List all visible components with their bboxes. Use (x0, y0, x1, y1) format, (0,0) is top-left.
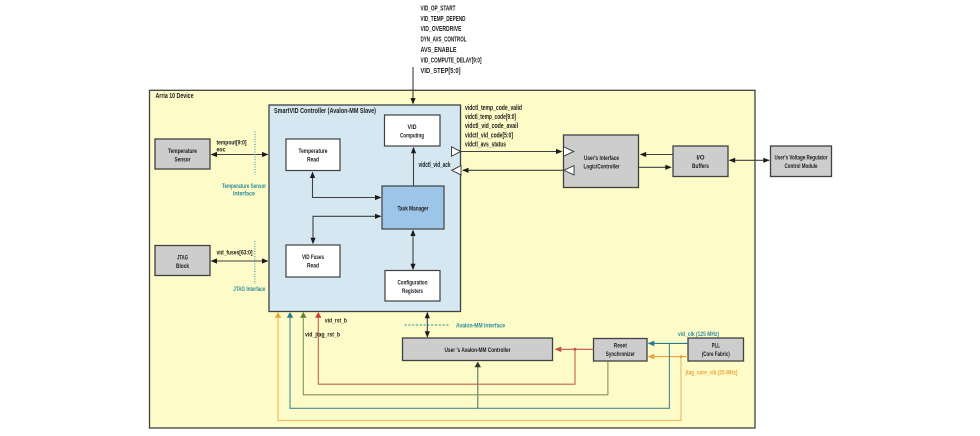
svg-text:Synchronizer: Synchronizer (606, 351, 635, 358)
wire: tempout[9:0]/eoc between Temperature Sensor and SmartVID (211, 152, 269, 157)
svg-text:Buffers: Buffers (692, 163, 709, 170)
buffer: user's interface input triangle (564, 147, 574, 156)
svg-text:vid_clk (125 MHz): vid_clk (125 MHz) (678, 331, 719, 338)
svg-text:Avalon-MM Interface: Avalon-MM Interface (456, 323, 505, 330)
svg-text:Temperature Sensor: Temperature Sensor (222, 183, 266, 190)
svg-text:VID_OP_START: VID_OP_START (421, 6, 456, 13)
svg-text:Read: Read (307, 262, 319, 269)
wire: Task Manager to Configuration Registers (bidirectional) (410, 230, 415, 271)
svg-text:Registers: Registers (402, 288, 423, 295)
block: JTAG Block (155, 246, 210, 276)
svg-text:jtag_core_clk (25 MHz): jtag_core_clk (25 MHz) (685, 370, 738, 377)
buffer: SmartVID input receiver triangle (452, 166, 461, 175)
svg-text:Temperature: Temperature (299, 148, 328, 155)
wire: vid_rst_b net (red) (315, 312, 593, 384)
wire: vidctl_vid_ack from user's interface to SmartVID (462, 168, 564, 173)
svg-text:DYN_AVS_CONTROL: DYN_AVS_CONTROL (421, 37, 467, 44)
block: User's Interface Logic/Controller (564, 135, 639, 188)
svg-text:JTAG Interface: JTAG Interface (233, 286, 265, 293)
svg-text:SmartVID Controller (Avalon-MM: SmartVID Controller (Avalon-MM Slave) (274, 108, 376, 115)
block: Reset Synchronizer (594, 339, 648, 362)
svg-text:vidctl_temp_code[9:0]: vidctl_temp_code[9:0] (465, 114, 516, 121)
block: User's Voltage Regulator Control Module (771, 146, 832, 177)
svg-text:Temperature: Temperature (168, 148, 197, 155)
svg-text:(Core Fabric): (Core Fabric) (702, 351, 730, 358)
block: Temperature Read (286, 139, 340, 171)
svg-text:Logic/Controller: Logic/Controller (584, 164, 620, 171)
svg-text:vid_fuses[63:0]: vid_fuses[63:0] (217, 249, 253, 256)
wire: vidctl outputs to user's interface (461, 149, 563, 154)
svg-text:User's Voltage Regulator: User's Voltage Regulator (775, 154, 828, 161)
wire: vid_clk net (blue) (287, 312, 688, 408)
wire: jtag_core_clk net (orange) (275, 312, 688, 421)
svg-text:VID Fuses: VID Fuses (302, 254, 324, 261)
block: Temperature Sensor (155, 139, 210, 169)
node: JTAG interface boundary (dotted) (254, 241, 256, 284)
wire: user's interface to I/O buffers (input) (640, 152, 673, 157)
svg-text:Configuration: Configuration (398, 279, 428, 286)
wire: Task Manager to VID Fuses Read (310, 214, 381, 245)
svg-text:Reset: Reset (614, 343, 628, 350)
svg-text:AVS_ENABLE: AVS_ENABLE (421, 47, 457, 54)
buffer: SmartVID output driver triangle (452, 147, 461, 156)
wire: user's interface to I/O buffers (output) (639, 165, 672, 170)
block: VID Fuses Read (286, 245, 340, 277)
svg-text:vidctl_avs_status: vidctl_avs_status (465, 142, 506, 149)
svg-text:VID_TEMP_DEPEND: VID_TEMP_DEPEND (421, 16, 466, 23)
svg-text:VID_OVERDRIVE: VID_OVERDRIVE (421, 26, 462, 33)
wire: I/O buffers to voltage regulator module (bidirectional) (729, 158, 770, 163)
block: SmartVID Controller (Avalon-MM Slave) (269, 105, 461, 312)
svg-text:PLL: PLL (712, 343, 720, 350)
svg-text:VID: VID (408, 124, 417, 131)
svg-text:Arria 10 Device: Arria 10 Device (156, 93, 194, 100)
svg-text:Block: Block (176, 263, 189, 270)
svg-text:User's Interface: User's Interface (584, 155, 619, 162)
svg-text:Control Module: Control Module (785, 163, 818, 170)
block: Arria 10 Device (150, 90, 756, 428)
svg-text:User ’s Avalon-MM Controller: User ’s Avalon-MM Controller (445, 347, 511, 354)
block: I/O Buffers (673, 146, 728, 177)
wire: Temperature Read to Task Manager (310, 172, 382, 201)
svg-text:Interface: Interface (233, 191, 255, 198)
block: VID Computing (385, 115, 441, 146)
block: PLL (Core Fabric) (688, 338, 744, 361)
node: Avalon-MM interface boundary (dashed) (405, 324, 450, 326)
label: Temperature Sensor Interface (222, 183, 266, 198)
svg-text:eoc: eoc (217, 147, 226, 154)
wire: VID control inputs into SmartVID top (410, 67, 415, 105)
block: Configuration Registers (385, 271, 440, 302)
svg-text:Sensor: Sensor (175, 156, 191, 163)
svg-text:vid_rst_b: vid_rst_b (325, 318, 347, 325)
svg-text:vidctl_vid_ack: vidctl_vid_ack (419, 162, 451, 169)
wire: Task Manager to VID Computing (411, 147, 416, 186)
svg-text:VID_STEP[5:0]: VID_STEP[5:0] (421, 68, 461, 75)
wire: vid_clk branch into User 's Avalon-MM Controller (475, 362, 481, 409)
wire: vid_jtag_rst_b net (olive) (300, 312, 608, 395)
svg-text:tempout[9:0]: tempout[9:0] (217, 139, 247, 146)
svg-text:Read: Read (307, 156, 319, 163)
wire: Avalon-MM bus between SmartVID and User 's Avalon-MM Controller (425, 312, 430, 338)
svg-text:Computing: Computing (400, 132, 424, 139)
svg-text:vid_jtag_rst_b: vid_jtag_rst_b (305, 331, 340, 338)
svg-text:VID_COMPUTE_DELAY[9:0]: VID_COMPUTE_DELAY[9:0] (421, 58, 482, 65)
buffer: user's interface output triangle (564, 166, 574, 175)
block: User 's Avalon-MM Controller (403, 338, 553, 361)
svg-text:I/O: I/O (697, 154, 705, 161)
svg-text:Task Manager: Task Manager (398, 205, 429, 212)
node: temperature sensor interface boundary (dotted) (254, 132, 256, 175)
svg-text:JTAG: JTAG (177, 254, 188, 261)
svg-text:vidctl_vid_code_avail: vidctl_vid_code_avail (465, 123, 518, 130)
svg-text:vidctl_vid_code[5:0]: vidctl_vid_code[5:0] (465, 132, 513, 139)
wire: vid_fuses[63:0] between JTAG Block and SmartVID (211, 258, 269, 263)
block: Task Manager (382, 186, 444, 229)
svg-text:vidctl_temp_code_valid: vidctl_temp_code_valid (465, 105, 522, 112)
